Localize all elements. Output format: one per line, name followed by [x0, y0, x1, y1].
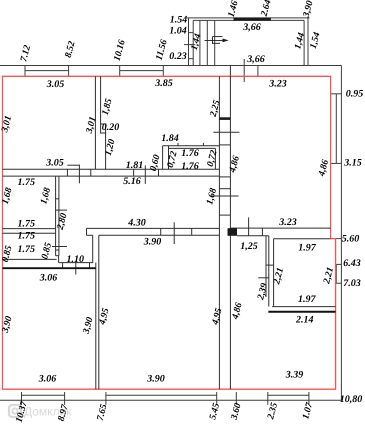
svg-text:0.95: 0.95: [346, 89, 364, 100]
svg-text:3.39: 3.39: [285, 370, 304, 381]
svg-text:4.30: 4.30: [127, 218, 146, 229]
right frame line: [340, 66, 342, 401]
svg-text:3.23: 3.23: [278, 217, 297, 228]
right band inner lines: [335, 94, 337, 164]
svg-text:3.15: 3.15: [343, 158, 362, 169]
top frame line: [0, 65, 341, 67]
top band second lines: [25, 70, 69, 72]
red apartment perimeter: [3, 76, 336, 389]
stairwell: [184, 18, 310, 66]
svg-text:1.76: 1.76: [181, 161, 199, 172]
svg-text:3.85: 3.85: [154, 78, 173, 89]
door opening marks in corridor top wall: [67, 164, 79, 166]
svg-text:3.05: 3.05: [46, 79, 65, 90]
balcony niche walls: [265, 236, 267, 297]
svg-text:1.81: 1.81: [126, 160, 144, 171]
hall / bottom-middle top wall: [87, 227, 220, 229]
door 1.10 marks: [59, 262, 94, 264]
corridor top wall: [3, 168, 220, 170]
svg-text:10,80: 10,80: [340, 394, 363, 405]
living room top wall: [230, 227, 330, 229]
bottom band ticks: [21, 392, 23, 405]
svg-text:1.97: 1.97: [298, 294, 317, 305]
stair treads: [199, 20, 201, 65]
svg-text:1.75: 1.75: [17, 244, 35, 255]
thick walls: [3, 268, 336, 312]
right band ticks: [331, 93, 342, 95]
wall junction fills: [219, 117, 230, 120]
stairs direction arrow: [205, 37, 227, 44]
svg-text:3,66: 3,66: [242, 22, 261, 33]
ticks under stairwell 3,66: [243, 59, 245, 82]
svg-text:1.75: 1.75: [17, 177, 35, 188]
svg-text:7.03: 7.03: [343, 278, 361, 289]
dimension frame: [0, 59, 341, 405]
watermark logo: [9, 405, 72, 419]
svg-text:3.90: 3.90: [143, 236, 162, 247]
stairwell window fill: [234, 18, 271, 21]
svg-text:1.10: 1.10: [67, 254, 85, 265]
svg-text:3.23: 3.23: [268, 79, 287, 90]
svg-text:1.97: 1.97: [298, 243, 317, 254]
svg-text:3,66: 3,66: [246, 54, 265, 65]
svg-text:1.04: 1.04: [169, 26, 187, 37]
svg-text:1.84: 1.84: [161, 133, 179, 144]
svg-text:6.43: 6.43: [343, 258, 361, 269]
top band ticks: [24, 66, 26, 77]
svg-text:1.76: 1.76: [181, 148, 199, 159]
svg-text:3.90: 3.90: [146, 373, 165, 384]
central thick wall: [218, 76, 220, 389]
svg-text:3.06: 3.06: [39, 273, 58, 284]
svg-text:3.05: 3.05: [45, 158, 64, 169]
bottom-left / bottom-middle separator: [95, 263, 97, 390]
svg-text:1.54: 1.54: [170, 15, 188, 26]
svg-text:0.20: 0.20: [102, 122, 120, 133]
svg-text:5.60: 5.60: [342, 234, 360, 245]
left small rooms right wall: [55, 176, 57, 256]
kitchen niche: [163, 145, 220, 147]
left wall band ticks: [189, 32, 194, 34]
bottom frame line: [0, 399, 341, 401]
room2 bottom thin line: [3, 258, 57, 260]
bottom band second lines: [22, 394, 65, 396]
svg-text:2.14: 2.14: [295, 315, 314, 326]
svg-text:0.23: 0.23: [169, 51, 187, 62]
left rooms separator wall: [3, 228, 56, 230]
interior walls: [3, 66, 336, 390]
wall top-left / top-middle rooms: [94, 76, 96, 169]
svg-text:1,25: 1,25: [240, 241, 258, 252]
svg-text:1.75: 1.75: [17, 231, 35, 242]
svg-text:5.16: 5.16: [123, 176, 141, 187]
svg-text:1.75: 1.75: [17, 219, 35, 230]
svg-text:3.06: 3.06: [38, 373, 57, 384]
